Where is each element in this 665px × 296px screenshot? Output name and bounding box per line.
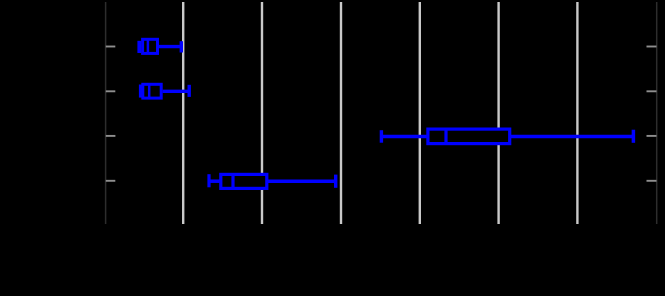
boxplot row 4 <box>209 174 336 188</box>
gridline x1 <box>182 2 184 224</box>
gridline x6 <box>576 2 578 224</box>
row1 right whisker <box>159 45 181 48</box>
gridline x2 <box>261 2 263 224</box>
row2 median <box>148 84 151 98</box>
row4 right cap <box>334 175 337 188</box>
boxplot row 3 <box>381 129 633 144</box>
row1 box <box>143 39 158 53</box>
row1 median <box>147 39 150 53</box>
right tick y1 <box>647 46 657 48</box>
row4 right whisker <box>267 179 336 183</box>
row3 box <box>428 129 510 144</box>
row4 left cap <box>207 174 210 187</box>
row1 right cap <box>180 41 183 52</box>
row2 left cap <box>139 85 142 98</box>
left spine <box>105 2 107 224</box>
right spine <box>656 2 658 224</box>
row3 left whisker <box>381 135 427 139</box>
right tick y4 <box>647 180 657 182</box>
gridline x3 <box>340 2 342 224</box>
left tick y4 <box>106 180 116 182</box>
row4 left whisker <box>209 179 221 183</box>
left tick y3 <box>106 135 116 137</box>
row2 box <box>143 84 161 98</box>
row3 left cap <box>380 130 383 143</box>
row4 median <box>231 174 234 188</box>
boxplot row 1 <box>139 39 181 53</box>
row2 right cap <box>187 85 190 97</box>
gridline x5 <box>497 2 499 224</box>
row2 right whisker <box>163 90 190 93</box>
row3 right cap <box>632 130 636 143</box>
row4 box <box>221 174 267 188</box>
left tick y2 <box>106 90 116 92</box>
right tick y2 <box>647 90 657 92</box>
gridline x4 <box>419 2 421 224</box>
row3 right whisker <box>511 135 634 139</box>
boxplot row 2 <box>141 84 190 98</box>
row3 median <box>444 129 447 144</box>
right tick y3 <box>647 135 657 137</box>
left tick y1 <box>106 46 116 48</box>
row1 left cap <box>137 41 141 53</box>
